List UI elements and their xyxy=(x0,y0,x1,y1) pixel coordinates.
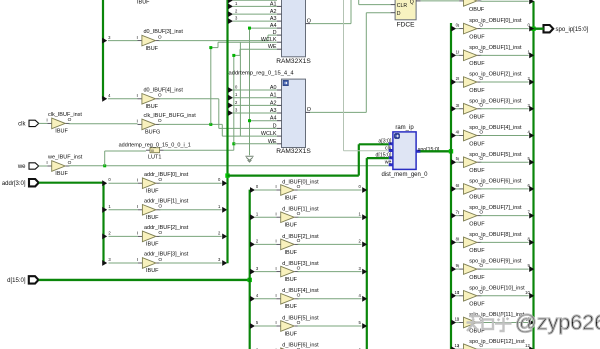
svg-text:we: we xyxy=(385,160,392,166)
pin number 1 (addr_IBUF[1] out) xyxy=(218,204,221,209)
wire d_IBUF[1] output xyxy=(298,216,362,218)
buffer d0_IBUF[4]_inst xyxy=(137,87,184,110)
svg-text:a[3:0]: a[3:0] xyxy=(378,139,392,145)
svg-text:CLR: CLR xyxy=(397,3,408,9)
bus joiner addr_IBUF[2] xyxy=(222,234,227,240)
svg-text:I: I xyxy=(275,211,276,217)
buffer d0_IBUF[3]_inst xyxy=(137,29,184,52)
svg-text:addr_IBUF[2]_inst: addr_IBUF[2]_inst xyxy=(144,225,189,231)
svg-text:RAM32X1S: RAM32X1S xyxy=(276,58,311,65)
svg-text:d_IBUF[0]_inst: d_IBUF[0]_inst xyxy=(282,179,319,185)
buffer spo_ip_OBUF[7]_inst xyxy=(458,205,522,227)
svg-text:spo_ip_OBUF[4]_inst: spo_ip_OBUF[4]_inst xyxy=(469,125,522,131)
junction we branch to LUT1 xyxy=(103,164,106,167)
wire addr_IBUF[3] output xyxy=(159,262,221,264)
wire RAM1 A1 xyxy=(233,5,277,7)
pin number 9 (spo_ip_OBUF[9] out) xyxy=(527,263,530,268)
bus ripper spo[0] xyxy=(451,26,456,32)
wire d0[4] tap to IBUF xyxy=(108,98,138,100)
wire to RAM2 WE xyxy=(234,143,277,145)
svg-text:I: I xyxy=(458,263,459,269)
bus joiner spo_ip_OBUF[9] xyxy=(529,266,534,272)
svg-text:I: I xyxy=(458,290,459,296)
pin number 2 (spo_ip_OBUF[2] out) xyxy=(527,76,530,81)
pin number 3 (d0[3] tap) xyxy=(108,35,111,40)
wire we line xyxy=(69,165,389,167)
wire RAM2 A1 xyxy=(233,97,277,99)
pin number 1 (d_IBUF[1] out) xyxy=(358,211,361,216)
svg-text:A3: A3 xyxy=(270,108,277,114)
pin number 0 (addr[0] tap) xyxy=(108,177,111,182)
pin number 6 (spo_ip_OBUF[6] out) xyxy=(527,183,530,188)
svg-text:spo_ip[15:0]: spo_ip[15:0] xyxy=(556,27,589,33)
wire d_IBUF[3] output xyxy=(298,271,362,273)
svg-text:spo_ip_OBUF[0]_inst: spo_ip_OBUF[0]_inst xyxy=(469,18,522,24)
wire spo input bus vertical xyxy=(450,23,452,349)
svg-text:addr_IBUF[0]_inst: addr_IBUF[0]_inst xyxy=(144,172,189,178)
wire spo_ip_OBUF[6] output xyxy=(480,188,528,190)
svg-text:I: I xyxy=(458,183,459,189)
svg-text:WCLK: WCLK xyxy=(261,131,277,137)
pin number 0 (RAM2 A0) xyxy=(235,84,238,89)
wire addr[1] to IBUF xyxy=(109,209,139,211)
bus ripper d[4] xyxy=(250,296,255,302)
svg-text:IBUF: IBUF xyxy=(146,188,159,194)
wire RAM1 O output xyxy=(310,0,351,24)
buffer d_IBUF[3]_inst xyxy=(275,261,319,283)
svg-text:I: I xyxy=(458,317,459,323)
svg-text:I: I xyxy=(137,231,138,237)
bus joiner addr_IBUF[1] xyxy=(222,207,227,213)
wire d_IBUF[4] output xyxy=(298,298,362,300)
svg-text:clk: clk xyxy=(18,122,26,128)
svg-text:A0: A0 xyxy=(270,85,277,91)
wire d[2] to IBUF xyxy=(255,243,276,245)
wire addr port bus xyxy=(39,182,104,184)
bus ripper d0[4] xyxy=(102,96,107,102)
bus ripper RAM2 A1 xyxy=(228,95,233,101)
svg-text:I0: I0 xyxy=(151,149,154,153)
buffer clk_IBUF_inst xyxy=(46,112,82,135)
wire addr bus vertical (center) xyxy=(226,0,228,263)
svg-text:addrtemp_reg_0_15_4_4: addrtemp_reg_0_15_4_4 xyxy=(229,70,295,76)
wire RAM2 A4 xyxy=(250,120,278,122)
junction spo input bus xyxy=(449,149,453,153)
buffer OBUF (top, cut off) xyxy=(458,0,485,13)
bus ripper RAM1 A3 xyxy=(228,18,233,24)
wire clk port to IBUF xyxy=(39,122,48,124)
wire spo_ip_OBUF[1] output xyxy=(480,54,528,56)
wire addr[3] to IBUF xyxy=(109,262,139,264)
svg-text:O: O xyxy=(158,257,162,263)
svg-text:O: O xyxy=(158,93,162,99)
buffer we_IBUF_inst xyxy=(46,155,82,178)
svg-text:OBUF: OBUF xyxy=(469,115,485,121)
pin number 0 (spo[0] tap) xyxy=(456,23,459,28)
wire d0 bus vertical xyxy=(102,0,104,99)
watermark zhihu @zyp626 xyxy=(467,311,600,335)
svg-text:A1: A1 xyxy=(270,1,277,7)
wire spo[1] to OBUF xyxy=(456,54,459,56)
wire addr_IBUF[2] output xyxy=(159,235,221,237)
wire d[4] to IBUF xyxy=(255,298,276,300)
wire spo_ip_OBUF[11] output xyxy=(480,322,528,324)
bus joiner spo_ip_OBUF[12] xyxy=(529,346,534,349)
bus ripper spo[6] xyxy=(451,186,456,192)
svg-text:A3: A3 xyxy=(270,16,277,22)
wire d output bus vertical xyxy=(367,158,389,349)
svg-text:I: I xyxy=(458,0,459,1)
svg-text:OBUF: OBUF xyxy=(469,302,485,308)
svg-text:addr_IBUF[1]_inst: addr_IBUF[1]_inst xyxy=(144,198,189,204)
svg-text:dist_mem_gen_0: dist_mem_gen_0 xyxy=(381,172,428,178)
pin number 2 (spo[2] tap) xyxy=(456,76,459,81)
svg-text:D: D xyxy=(273,123,277,129)
svg-text:clk_IBUF_inst: clk_IBUF_inst xyxy=(48,112,82,118)
svg-text:O: O xyxy=(158,177,162,183)
pin number 3 (addr_IBUF[3] out) xyxy=(218,257,221,262)
svg-text:IBUF: IBUF xyxy=(146,215,159,221)
wire addr[0] to IBUF xyxy=(109,182,139,184)
wire LUT1 output (we of RAMs) xyxy=(164,49,278,150)
bus joiner spo_ip_OBUF[10] xyxy=(529,293,534,299)
svg-text:I: I xyxy=(275,239,276,245)
flip-flop FDCE xyxy=(391,0,421,28)
bus ripper addr[1] xyxy=(102,207,107,213)
svg-text:I: I xyxy=(458,343,459,349)
svg-text:OBUF: OBUF xyxy=(469,88,485,94)
junction A4 RAM1 xyxy=(248,27,251,30)
svg-text:IBUF: IBUF xyxy=(285,223,298,229)
svg-text:IBUF: IBUF xyxy=(55,129,68,135)
wire clk IBUF to BUFG xyxy=(69,123,138,125)
svg-text:clk: clk xyxy=(385,145,392,151)
bus ripper spo[9] xyxy=(451,266,456,272)
svg-text:d_IBUF[5]_inst: d_IBUF[5]_inst xyxy=(282,315,319,321)
bus ripper spo[8] xyxy=(451,239,456,245)
pin number 4 (spo[4] tap) xyxy=(456,129,459,134)
wire d[3] to IBUF xyxy=(255,271,276,273)
svg-text:O: O xyxy=(479,0,483,1)
svg-text:I: I xyxy=(275,266,276,272)
buffer spo_ip_OBUF[3]_inst xyxy=(458,98,522,120)
svg-text:D: D xyxy=(397,11,401,17)
buffer addr_IBUF[1]_inst xyxy=(137,198,189,221)
wire addr_IBUF[1] output xyxy=(159,209,221,211)
port we xyxy=(17,163,39,170)
buffer spo_ip_OBUF[1]_inst xyxy=(458,45,522,67)
bus joiner d_IBUF[0] xyxy=(362,187,367,193)
svg-text:I: I xyxy=(458,210,459,216)
junction LUT1 out to RAM2 WE xyxy=(232,142,235,145)
wire spo_ip_OBUF[7] output xyxy=(480,215,528,217)
wire RAM1 A3 xyxy=(233,20,277,22)
svg-text:spo_ip_OBUF[6]_inst: spo_ip_OBUF[6]_inst xyxy=(469,179,522,185)
bus ripper d[3] xyxy=(250,269,255,275)
buffer d_IBUF[1]_inst xyxy=(275,207,319,229)
pin number 6 (spo[6] tap) xyxy=(456,183,459,188)
svg-text:IBUF: IBUF xyxy=(55,171,68,177)
wire spo[5] to OBUF xyxy=(456,161,459,163)
svg-text:BUFG: BUFG xyxy=(145,130,160,136)
svg-text:O: O xyxy=(158,118,162,124)
wire we to LUT1 input xyxy=(105,151,146,166)
pin number 12 (spo_ip_OBUF[12] out) xyxy=(525,343,530,348)
bus ripper d[2] xyxy=(250,242,255,248)
svg-text:OBUF: OBUF xyxy=(469,275,485,281)
port spo_ip[15:0] (bus output) xyxy=(544,25,589,33)
buffer d_IBUF[5]_inst xyxy=(275,315,319,337)
wire d[0] to IBUF xyxy=(255,189,276,191)
svg-text:WE: WE xyxy=(268,139,277,145)
pin number 1 (spo_ip_OBUF[1] out) xyxy=(527,49,530,54)
pin number 3 (spo_ip_OBUF[3] out) xyxy=(527,103,530,108)
svg-text:I: I xyxy=(275,184,276,190)
svg-text:d_IBUF[2]_inst: d_IBUF[2]_inst xyxy=(282,234,319,240)
port addr[3:0] (bus) xyxy=(2,179,39,187)
wire spo_ip_OBUF[12] output xyxy=(480,348,528,349)
bus joiner addr_IBUF[3] xyxy=(222,260,227,266)
wire spo_ip_OBUF[4] output xyxy=(480,134,528,136)
pin number 4 (d0[4] tap) xyxy=(108,93,111,98)
wire spo output bus vertical xyxy=(532,1,534,349)
wire d[5] to IBUF xyxy=(255,325,276,327)
bus joiner spo_ip_OBUF[0] xyxy=(529,26,534,32)
wire spo_ip_OBUF[2] output xyxy=(480,81,528,83)
pin number 10 (spo_ip_OBUF[10] out) xyxy=(525,290,530,295)
junction clk at RAM1 WCLK jog xyxy=(209,46,212,49)
bus joiner d_IBUF[4] xyxy=(362,296,367,302)
svg-text:addr_IBUF[3]_inst: addr_IBUF[3]_inst xyxy=(144,252,189,258)
svg-text:spo_ip_OBUF[3]_inst: spo_ip_OBUF[3]_inst xyxy=(469,98,522,104)
wire d input bus vertical xyxy=(249,190,251,349)
svg-text:d0_IBUF[4]_inst: d0_IBUF[4]_inst xyxy=(144,87,184,93)
wire RAM2 A3 xyxy=(233,112,277,114)
svg-text:WE: WE xyxy=(268,44,277,50)
wire spo_ip_OBUF[10] output xyxy=(480,295,528,297)
svg-text:IBUF: IBUF xyxy=(146,104,159,110)
svg-text:LUT1: LUT1 xyxy=(148,154,161,160)
wire spo_ip_OBUF[9] output xyxy=(480,268,528,270)
bus ripper RAM1 A1 xyxy=(228,4,233,10)
wire spo_ip_OBUF[8] output xyxy=(480,241,528,243)
pin number 1 (spo[1] tap) xyxy=(456,49,459,54)
pin number 7 (spo_ip_OBUF[7] out) xyxy=(527,210,530,215)
wire FDCE CLR xyxy=(359,0,391,5)
svg-text:O: O xyxy=(158,34,162,40)
bus ripper addr[2] xyxy=(102,234,107,240)
buffer d_IBUF[2]_inst xyxy=(275,234,319,256)
wire addr input bus vertical xyxy=(102,182,104,263)
svg-text:OBUF: OBUF xyxy=(469,141,485,147)
ground xyxy=(245,156,253,162)
pin number 12 (spo[12] tap) xyxy=(454,343,459,348)
RAM addrtemp_reg upper (RAM32X1S) xyxy=(261,0,311,65)
pin number 8 (spo[8] tap) xyxy=(456,236,459,241)
svg-text:spo_ip_OBUF[9]_inst: spo_ip_OBUF[9]_inst xyxy=(469,259,522,265)
junction addr bus to ram_ip xyxy=(225,173,229,177)
pin number 8 (spo_ip_OBUF[8] out) xyxy=(527,236,530,241)
svg-text:I: I xyxy=(458,156,459,162)
pin number 7 (spo[7] tap) xyxy=(456,210,459,215)
pin number 6 (d_IBUF[6] out) xyxy=(358,347,361,349)
buffer spo_ip_OBUF[4]_inst xyxy=(458,125,522,147)
svg-text:OBUF: OBUF xyxy=(469,221,485,227)
svg-text:addr[3:0]: addr[3:0] xyxy=(2,181,26,187)
wire spo[0] to OBUF xyxy=(456,28,459,30)
pin number 4 (d[4] tap) xyxy=(256,293,259,298)
wire spo[2] to OBUF xyxy=(456,81,459,83)
pin number 5 (d[5] tap) xyxy=(256,320,259,325)
bus ripper d[0] xyxy=(250,187,255,193)
buffer d_IBUF[4]_inst xyxy=(275,288,319,310)
bus ripper d0[3] xyxy=(102,38,107,44)
block ram_ip (dist_mem_gen_0) xyxy=(376,125,440,178)
svg-text:D: D xyxy=(273,30,277,36)
svg-text:spo_ip_OBUF[1]_inst: spo_ip_OBUF[1]_inst xyxy=(469,45,522,51)
junction A4 RAM2 xyxy=(248,119,251,122)
svg-text:I: I xyxy=(137,119,138,125)
bus joiner spo_ip_OBUF[4] xyxy=(529,133,534,139)
wire addr[2] to IBUF xyxy=(109,235,139,237)
buffer addr_IBUF[0]_inst xyxy=(137,172,189,195)
svg-text:d_IBUF[4]_inst: d_IBUF[4]_inst xyxy=(282,288,319,294)
bus ripper addr[3] xyxy=(102,260,107,266)
pin number 2 (RAM1 A2) xyxy=(235,9,238,14)
bus ripper spo[3] xyxy=(451,106,456,112)
wire spo[9] to OBUF xyxy=(456,268,459,270)
svg-text:spo_ip_OBUF[8]_inst: spo_ip_OBUF[8]_inst xyxy=(469,232,522,238)
wire spo_ip_OBUF[3] output xyxy=(480,108,528,110)
pin number 5 (d_IBUF[5] out) xyxy=(358,320,361,325)
svg-text:OBUF: OBUF xyxy=(469,195,485,201)
wire spo[7] to OBUF xyxy=(456,215,459,217)
svg-text:FDCE: FDCE xyxy=(397,21,416,28)
pin number 1 (addr[1] tap) xyxy=(108,204,111,209)
pin number 0 (addr_IBUF[0] out) xyxy=(218,177,221,182)
svg-text:I: I xyxy=(137,204,138,210)
svg-text:I: I xyxy=(46,118,47,124)
buffer IBUF (cut off at top edge) xyxy=(137,0,150,5)
pin number 3 (RAM2 A3) xyxy=(235,107,238,112)
wire d0_IBUF[3] output xyxy=(159,35,277,41)
pin number 5 (spo_ip_OBUF[5] out) xyxy=(527,156,530,161)
svg-text:spo_ip_OBUF[5]_inst: spo_ip_OBUF[5]_inst xyxy=(469,152,522,158)
wire clk from top to ram_ip clk xyxy=(344,0,389,151)
bus ripper RAM2 A0 xyxy=(228,87,233,93)
svg-text:A4: A4 xyxy=(270,116,277,122)
wire clk vertical joining WCLK rows xyxy=(239,42,241,136)
bus joiner spo_ip_OBUF[7] xyxy=(529,213,534,219)
pin number 11 (spo[11] tap) xyxy=(455,317,460,322)
wire d port bus xyxy=(39,279,250,281)
svg-text:@zyp626: @zyp626 xyxy=(515,311,600,335)
pin number 1 (RAM1 A1) xyxy=(235,1,238,6)
wire RAM1 A2 xyxy=(233,13,277,15)
bus ripper addr[0] xyxy=(102,180,107,186)
buffer spo_ip_OBUF[2]_inst xyxy=(458,72,522,94)
svg-text:spo_ip_OBUF[12]_inst: spo_ip_OBUF[12]_inst xyxy=(469,339,525,345)
svg-text:d_IBUF[1]_inst: d_IBUF[1]_inst xyxy=(282,207,319,213)
bus joiner d_IBUF[2] xyxy=(362,242,367,248)
svg-text:O: O xyxy=(68,160,72,166)
bus joiner top OBUF xyxy=(529,0,534,4)
bus ripper RAM2 A2 xyxy=(228,103,233,109)
wire spo[12] to OBUF xyxy=(456,348,459,349)
wire d_IBUF[0] output xyxy=(298,189,362,191)
wire spo[8] to OBUF xyxy=(456,241,459,243)
wire RAM2 A0 xyxy=(233,89,277,91)
svg-text:IBUF: IBUF xyxy=(285,304,298,310)
bus joiner spo_ip_OBUF[1] xyxy=(529,52,534,58)
buffer clk_IBUF_BUFG_inst xyxy=(137,113,197,136)
buffer spo_ip_OBUF[6]_inst xyxy=(458,179,522,201)
pin number 4 (d_IBUF[4] out) xyxy=(358,293,361,298)
buffer spo_ip_OBUF[0]_inst xyxy=(458,18,522,40)
buffer addr_IBUF[3]_inst xyxy=(137,252,189,275)
wire addr_IBUF[0] output xyxy=(159,182,221,184)
wire ram_ip spo output xyxy=(420,150,451,152)
bus joiner addr_IBUF[0] xyxy=(222,180,227,186)
svg-text:I: I xyxy=(458,76,459,82)
bus ripper RAM2 A3 xyxy=(228,110,233,116)
pin number 11 (spo_ip_OBUF[11] out) xyxy=(525,317,530,322)
pin number 2 (d_IBUF[2] out) xyxy=(358,239,361,244)
pin number 9 (spo[9] tap) xyxy=(456,263,459,268)
svg-text:OBUF: OBUF xyxy=(469,34,485,40)
wire RAM1 A0 xyxy=(233,0,277,1)
buffer spo_ip_OBUF[11]_inst xyxy=(458,312,525,334)
svg-text:spo_ip_OBUF[7]_inst: spo_ip_OBUF[7]_inst xyxy=(469,205,522,211)
wire RAM2 O to FDCE D xyxy=(310,13,391,113)
bus joiner d_IBUF[1] xyxy=(362,214,367,220)
svg-text:Q: Q xyxy=(410,0,414,5)
pin number 1 (RAM2 A1) xyxy=(235,92,238,97)
junction spo output port xyxy=(531,27,535,31)
svg-text:d0_IBUF[3]_inst: d0_IBUF[3]_inst xyxy=(144,29,184,35)
buffer addr_IBUF[2]_inst xyxy=(137,225,189,248)
bus ripper RAM1 A0 xyxy=(228,0,233,3)
pin number 3 (spo[3] tap) xyxy=(456,103,459,108)
buffer spo_ip_OBUF[12]_inst xyxy=(458,339,525,349)
svg-text:I: I xyxy=(137,93,138,99)
svg-text:I: I xyxy=(137,177,138,183)
svg-text:OBUF: OBUF xyxy=(469,61,485,67)
wire RAM2 A2 xyxy=(233,104,277,106)
svg-text:IBUF: IBUF xyxy=(146,242,159,248)
wire FDCE Q to OBUF xyxy=(421,0,460,2)
svg-text:spo_ip_OBUF[2]_inst: spo_ip_OBUF[2]_inst xyxy=(469,72,522,78)
bus joiner d_IBUF[3] xyxy=(362,269,367,275)
wire spo bus to port xyxy=(534,28,544,30)
wire addr bus to ram_ip a[3:0] xyxy=(228,144,389,175)
wire spo[10] to OBUF xyxy=(456,295,459,297)
svg-text:d_IBUF[3]_inst: d_IBUF[3]_inst xyxy=(282,261,319,267)
pin number 2 (RAM2 A2) xyxy=(235,100,238,105)
lut addrtemp_reg_0_15_0_0_i_1 (LUT1) xyxy=(119,143,191,161)
svg-text:O: O xyxy=(68,117,72,123)
bus ripper spo[4] xyxy=(451,133,456,139)
svg-text:d_IBUF[6]_inst: d_IBUF[6]_inst xyxy=(282,343,319,349)
pin number 10 (spo[10] tap) xyxy=(454,290,459,295)
bus ripper d[5] xyxy=(250,323,255,329)
buffer d_IBUF[0]_inst xyxy=(275,179,319,201)
buffer d_IBUF[6]_inst xyxy=(275,343,319,349)
svg-text:I: I xyxy=(458,23,459,29)
pin number 1 (d[1] tap) xyxy=(256,211,259,216)
svg-text:IBUF: IBUF xyxy=(146,46,159,52)
svg-text:A2: A2 xyxy=(270,100,277,106)
